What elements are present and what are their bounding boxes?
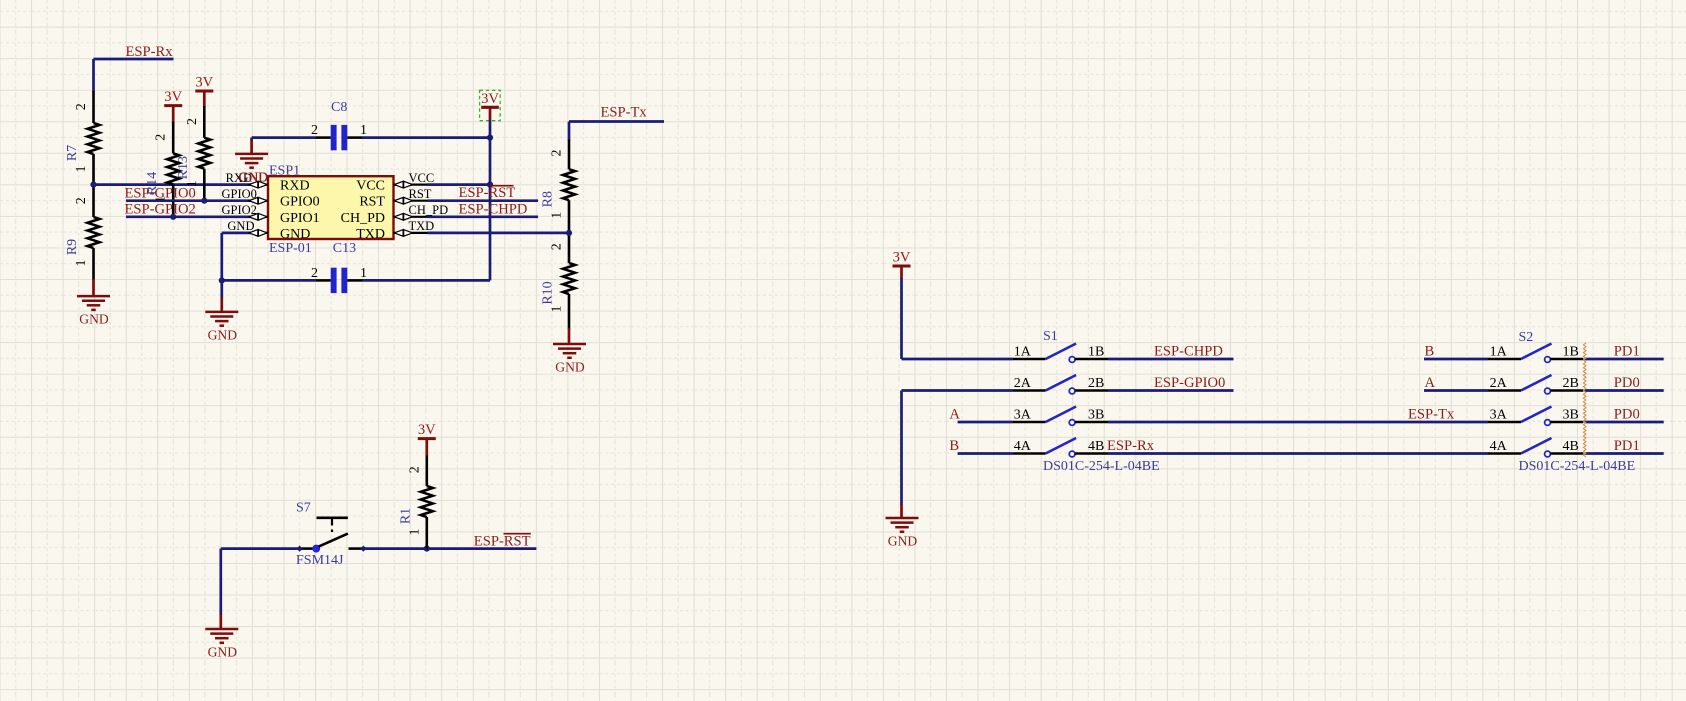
net label ESP-GPIO2 bbox=[125, 201, 196, 217]
wire ESP-RST to R1 bbox=[363, 547, 536, 550]
switch S1 element 4 bbox=[1013, 438, 1108, 457]
designator S1 bbox=[1043, 329, 1058, 344]
wire S1 3B to S2 3A net ESP-Tx bbox=[1108, 421, 1488, 424]
wire VCC bbox=[428, 183, 491, 186]
ground stem at C8 bbox=[250, 138, 253, 154]
pin label S1 4A bbox=[1014, 439, 1032, 454]
pin label S2 3A bbox=[1490, 408, 1508, 423]
svg-text:2A: 2A bbox=[1014, 376, 1032, 391]
pin label S2 3B bbox=[1563, 408, 1579, 423]
svg-text:R10: R10 bbox=[541, 281, 556, 304]
svg-text:R9: R9 bbox=[65, 239, 80, 255]
resistor R14 pin2 wire bbox=[172, 122, 175, 154]
power 3V (selected) at VCC rail bbox=[480, 90, 501, 121]
wire C13 pin2 bbox=[222, 279, 316, 282]
svg-text:3A: 3A bbox=[1490, 408, 1508, 423]
svg-text:3B: 3B bbox=[1563, 408, 1579, 423]
net label A at S2 2A bbox=[1425, 375, 1436, 391]
designator S7 bbox=[296, 501, 311, 516]
wire 3V to S1 1A bbox=[902, 278, 1013, 359]
wire B to S1 4A bbox=[958, 452, 1013, 455]
svg-text:DS01C-254-L-04BE: DS01C-254-L-04BE bbox=[1519, 459, 1636, 474]
wire S1 1B net ESP-CHPD bbox=[1108, 358, 1234, 361]
junction 3V/C8 bbox=[487, 135, 493, 141]
svg-text:2B: 2B bbox=[1088, 376, 1104, 391]
capacitor C8 designator bbox=[331, 100, 347, 115]
net label ESP-Rx at S1 4B bbox=[1107, 438, 1155, 454]
resistor R8 pin2 wire bbox=[568, 140, 571, 170]
wire net RXD bbox=[94, 183, 254, 186]
svg-text:GND: GND bbox=[227, 219, 254, 233]
svg-text:GND: GND bbox=[555, 360, 585, 375]
net label A at S1 3A bbox=[949, 407, 960, 423]
pin label S1 2A bbox=[1014, 376, 1032, 391]
svg-text:3V: 3V bbox=[418, 422, 436, 438]
wire S2 1B net PD1 bbox=[1585, 358, 1664, 361]
junction R14/GPIO2 bbox=[170, 214, 176, 220]
resistor R9 pin1 wire bbox=[92, 248, 95, 296]
resistor R7 pin2 wire bbox=[92, 91, 95, 123]
comment ESP-01 bbox=[269, 241, 312, 256]
net label B at S1 4A bbox=[949, 438, 959, 454]
wire C13 pin1 bbox=[362, 279, 490, 282]
svg-text:A: A bbox=[949, 407, 960, 423]
wire ESP-Tx bbox=[569, 122, 664, 141]
net label ESP-GPIO0 bbox=[125, 185, 196, 201]
svg-text:1: 1 bbox=[550, 212, 565, 219]
svg-text:1A: 1A bbox=[1014, 345, 1032, 360]
svg-text:VCC: VCC bbox=[356, 179, 385, 194]
ground stem S7 bbox=[219, 614, 222, 629]
resistor R14 bbox=[145, 134, 179, 203]
text GND overlap at RXD pin bbox=[239, 169, 269, 184]
svg-text:GND: GND bbox=[208, 328, 238, 343]
pin label S1 1A bbox=[1014, 345, 1032, 360]
resistor R13 pin2 wire bbox=[203, 106, 206, 138]
wire S1 4B to S2 4A net ESP-Rx bbox=[1108, 452, 1488, 455]
wire S7 left + ground drop bbox=[221, 549, 300, 615]
resistor R1 pin2 wire bbox=[425, 456, 428, 486]
switch S7 pin2 bbox=[349, 546, 367, 552]
svg-text:GND: GND bbox=[888, 534, 918, 549]
wire net ESP-GPIO0 bbox=[126, 199, 253, 202]
svg-text:1: 1 bbox=[74, 166, 89, 173]
wire A to S1 3A bbox=[958, 421, 1013, 424]
net label ESP-Tx bbox=[601, 104, 648, 120]
svg-text:2: 2 bbox=[154, 134, 169, 141]
svg-text:S7: S7 bbox=[296, 501, 311, 516]
resistor R1 pin1 wire bbox=[425, 517, 428, 549]
svg-text:2: 2 bbox=[407, 466, 422, 473]
wire RST bbox=[428, 199, 539, 202]
wire TXD bbox=[428, 232, 570, 235]
svg-text:GND: GND bbox=[280, 227, 310, 242]
net label ESP-GPIO0 at S1 bbox=[1154, 375, 1225, 391]
switch S1 element 3 bbox=[1013, 407, 1108, 426]
pin label S1 3A bbox=[1014, 408, 1032, 423]
junction 3V/VCC bbox=[487, 182, 493, 188]
svg-text:GND: GND bbox=[239, 169, 269, 184]
svg-text:3V: 3V bbox=[481, 91, 499, 107]
svg-text:GPIO1: GPIO1 bbox=[280, 211, 320, 226]
svg-text:1: 1 bbox=[407, 529, 422, 536]
pin label S1 2B bbox=[1088, 376, 1104, 391]
svg-text:ESP-Rx: ESP-Rx bbox=[1107, 438, 1155, 454]
net label ESP-RST bbox=[459, 185, 516, 201]
svg-text:GPIO2: GPIO2 bbox=[221, 203, 256, 217]
svg-text:R7: R7 bbox=[65, 145, 80, 161]
svg-text:1B: 1B bbox=[1563, 345, 1579, 360]
resistor R10 bbox=[541, 243, 575, 312]
wire GND to S1 2A bbox=[902, 391, 1013, 505]
pin label S2 1A bbox=[1490, 345, 1508, 360]
junction TXD/R8/R10 bbox=[566, 230, 572, 236]
svg-text:C8: C8 bbox=[331, 100, 347, 115]
designator S2 bbox=[1519, 330, 1534, 345]
junction node RXD bbox=[90, 182, 96, 188]
svg-text:4A: 4A bbox=[1490, 439, 1508, 454]
pin label S2 4B bbox=[1563, 439, 1579, 454]
op-amp U1 ESP1 body bbox=[268, 176, 394, 239]
svg-text:GND: GND bbox=[79, 312, 109, 327]
net label ESP-CHPD bbox=[459, 202, 528, 218]
svg-text:2: 2 bbox=[311, 266, 318, 281]
svg-text:R8: R8 bbox=[541, 191, 556, 207]
net label ESP-RST at S7 bbox=[474, 534, 531, 550]
capacitor C13 designator bbox=[333, 241, 356, 256]
svg-text:S2: S2 bbox=[1519, 330, 1534, 345]
switch S1 element 1 bbox=[1013, 344, 1108, 363]
junction GND/C13 bbox=[219, 277, 225, 283]
switch S2 element 3 bbox=[1488, 407, 1583, 426]
svg-text:TXD: TXD bbox=[409, 219, 435, 233]
resistor R13 pin1 wire bbox=[203, 169, 206, 201]
svg-text:PD0: PD0 bbox=[1614, 375, 1640, 391]
svg-text:1: 1 bbox=[74, 260, 89, 267]
ground GND at C8 input bbox=[235, 154, 268, 185]
svg-text:3B: 3B bbox=[1088, 408, 1104, 423]
ground GND under R10 bbox=[553, 344, 586, 375]
svg-text:2B: 2B bbox=[1563, 376, 1579, 391]
svg-text:ESP-CHPD: ESP-CHPD bbox=[459, 202, 528, 218]
wire C8 pin1 bbox=[362, 136, 490, 139]
svg-text:ESP-Tx: ESP-Tx bbox=[601, 104, 648, 120]
svg-text:2: 2 bbox=[311, 123, 318, 138]
svg-text:ESP-GPIO0: ESP-GPIO0 bbox=[125, 185, 196, 201]
net label B at S2 1A bbox=[1425, 344, 1435, 360]
pin label S1 1B bbox=[1088, 345, 1104, 360]
ground stem under ESP bbox=[220, 280, 223, 312]
svg-text:RST: RST bbox=[409, 187, 432, 201]
wire S2 2B net PD0 bbox=[1585, 389, 1664, 392]
resistor R13 bbox=[176, 118, 210, 187]
svg-text:PD1: PD1 bbox=[1614, 438, 1640, 454]
ground GND under ESP bbox=[205, 312, 238, 343]
capacitor C8 bbox=[311, 123, 367, 150]
pin label S2 1B bbox=[1563, 345, 1579, 360]
capacitor C13 bbox=[311, 266, 367, 293]
wire net ESP-GPIO2 bbox=[126, 215, 253, 218]
wire C8 pin2 bbox=[252, 136, 316, 139]
comment FSM14J bbox=[296, 553, 344, 568]
svg-text:3V: 3V bbox=[195, 75, 213, 91]
compile error squiggle at S2 B pins bbox=[1583, 343, 1586, 457]
designator ESP1 bbox=[269, 164, 300, 179]
switch S7 lever bbox=[319, 534, 348, 547]
svg-text:CH_PD: CH_PD bbox=[341, 211, 385, 226]
pin label S2 2B bbox=[1563, 376, 1579, 391]
svg-text:1: 1 bbox=[360, 123, 367, 138]
wire S2 3B net PD0 bbox=[1585, 421, 1664, 424]
svg-text:3V: 3V bbox=[893, 250, 911, 266]
svg-text:R13: R13 bbox=[176, 156, 191, 179]
svg-text:DS01C-254-L-04BE: DS01C-254-L-04BE bbox=[1043, 459, 1160, 474]
resistor R7 bbox=[65, 103, 99, 172]
power 3V for R1 bbox=[418, 422, 436, 456]
svg-text:GND: GND bbox=[208, 645, 238, 660]
svg-text:TXD: TXD bbox=[356, 227, 385, 242]
net label PD1 row1 bbox=[1614, 344, 1640, 360]
switch S7 pin1 bbox=[297, 546, 314, 552]
svg-text:PD1: PD1 bbox=[1614, 344, 1640, 360]
svg-text:GPIO0: GPIO0 bbox=[280, 195, 320, 210]
net label ESP-CHPD at S1 bbox=[1154, 344, 1223, 360]
net label PD0 row3 bbox=[1614, 407, 1640, 423]
svg-text:ESP-RST: ESP-RST bbox=[474, 534, 531, 550]
svg-text:ESP-RST: ESP-RST bbox=[459, 185, 516, 201]
svg-text:1B: 1B bbox=[1088, 345, 1104, 360]
svg-text:VCC: VCC bbox=[409, 171, 435, 185]
wire S2 4B net PD1 bbox=[1585, 452, 1664, 455]
comment DS01C-254-L-04BE at S2 bbox=[1519, 459, 1636, 474]
resistor R14 pin1 wire bbox=[172, 184, 175, 216]
svg-text:B: B bbox=[1425, 344, 1435, 360]
wire ESP-Rx bbox=[94, 59, 174, 92]
wire A to S2 2A bbox=[1424, 389, 1488, 392]
svg-text:2: 2 bbox=[74, 103, 89, 110]
svg-text:3A: 3A bbox=[1014, 408, 1032, 423]
net label ESP-Tx at S2 3A bbox=[1408, 407, 1455, 423]
svg-text:FSM14J: FSM14J bbox=[296, 553, 344, 568]
wire CH_PD bbox=[428, 215, 539, 218]
ESP1 left pins (RXD GPIO0 GPIO1 GND) bbox=[221, 171, 319, 242]
switch S2 element 1 bbox=[1488, 344, 1583, 363]
svg-text:GPIO0: GPIO0 bbox=[221, 187, 256, 201]
svg-text:4A: 4A bbox=[1014, 439, 1032, 454]
switch S2 element 4 bbox=[1488, 438, 1583, 457]
wire R7-R9 bbox=[92, 154, 95, 217]
wire 3V rail vertical bbox=[489, 121, 492, 281]
svg-text:2A: 2A bbox=[1490, 376, 1508, 391]
junction R1/wire bbox=[424, 546, 430, 552]
svg-text:3V: 3V bbox=[164, 89, 182, 105]
switch S7 contact bbox=[312, 545, 320, 553]
switch S1 element 2 bbox=[1013, 375, 1108, 394]
switch S7 actuator bbox=[317, 518, 348, 532]
svg-text:C13: C13 bbox=[333, 241, 356, 256]
resistor R1 bbox=[399, 466, 433, 535]
resistor R9 bbox=[65, 197, 99, 266]
svg-text:ESP-01: ESP-01 bbox=[269, 241, 312, 256]
resistor R8 bbox=[541, 150, 575, 219]
svg-text:A: A bbox=[1425, 375, 1436, 391]
wire ESP GND pin bbox=[222, 233, 253, 281]
svg-text:RST: RST bbox=[359, 195, 385, 210]
ground GND under S1 bbox=[886, 518, 919, 549]
wire S1 2B net ESP-GPIO0 bbox=[1108, 389, 1234, 392]
resistor R10 pin1 wire bbox=[568, 294, 571, 344]
svg-text:2: 2 bbox=[185, 118, 200, 125]
svg-text:ESP1: ESP1 bbox=[269, 164, 300, 179]
svg-text:2: 2 bbox=[74, 197, 89, 204]
svg-text:ESP-Tx: ESP-Tx bbox=[1408, 407, 1455, 423]
net label PD0 row2 bbox=[1614, 375, 1640, 391]
svg-text:B: B bbox=[949, 438, 959, 454]
pin label S2 4A bbox=[1490, 439, 1508, 454]
svg-text:1: 1 bbox=[550, 306, 565, 313]
svg-text:ESP-CHPD: ESP-CHPD bbox=[1154, 344, 1223, 360]
svg-text:PD0: PD0 bbox=[1614, 407, 1640, 423]
switch S2 element 2 bbox=[1488, 375, 1583, 394]
power 3V for S1 bbox=[893, 250, 911, 279]
svg-text:4B: 4B bbox=[1563, 439, 1579, 454]
power 3V for R13 bbox=[195, 75, 213, 107]
pin label S1 4B bbox=[1088, 439, 1104, 454]
power 3V for R14 bbox=[164, 89, 182, 122]
svg-text:R1: R1 bbox=[399, 508, 414, 524]
svg-text:S1: S1 bbox=[1043, 329, 1058, 344]
svg-text:2: 2 bbox=[550, 150, 565, 157]
ground stem S1 bbox=[900, 504, 903, 518]
wire R8-R10 bbox=[568, 200, 571, 263]
junction R13/GPIO0 bbox=[201, 198, 207, 204]
pin label S1 3B bbox=[1088, 408, 1104, 423]
svg-text:RXD: RXD bbox=[280, 179, 310, 194]
ground GND under S7 bbox=[205, 629, 238, 660]
svg-text:ESP-GPIO2: ESP-GPIO2 bbox=[125, 201, 196, 217]
ground GND under R9 bbox=[77, 296, 110, 327]
svg-text:1: 1 bbox=[360, 266, 367, 281]
ESP1 right pins (VCC RST CH_PD TXD) bbox=[341, 171, 448, 242]
svg-text:4B: 4B bbox=[1088, 439, 1104, 454]
wire B to S2 1A bbox=[1424, 358, 1488, 361]
svg-text:2: 2 bbox=[550, 243, 565, 250]
svg-text:1A: 1A bbox=[1490, 345, 1508, 360]
svg-text:ESP-Rx: ESP-Rx bbox=[126, 44, 174, 60]
svg-text:ESP-GPIO0: ESP-GPIO0 bbox=[1154, 375, 1225, 391]
net label ESP-Rx bbox=[126, 44, 174, 60]
net label PD1 row4 bbox=[1614, 438, 1640, 454]
comment DS01C-254-L-04BE at S1 bbox=[1043, 459, 1160, 474]
pin label S2 2A bbox=[1490, 376, 1508, 391]
svg-text:CH_PD: CH_PD bbox=[409, 203, 449, 217]
